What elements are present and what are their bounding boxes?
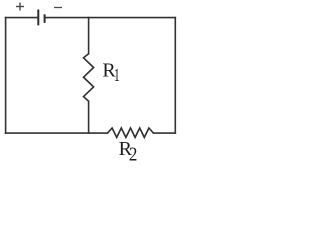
wire: top-left segment (battery positive lead) [6, 17, 38, 19]
resistor R2 (horizontal zigzag) [108, 128, 154, 137]
wire: bottom-left segment [6, 132, 108, 134]
wire: left edge [5, 18, 7, 134]
svg-text:1: 1 [114, 66, 120, 86]
label: battery + terminal [16, 3, 24, 11]
battery (cell) [38, 10, 44, 26]
wire: top-right segment (battery negative lead to right edge) [45, 17, 176, 19]
wire: bottom-right segment [154, 132, 176, 134]
wire: right edge [174, 18, 176, 134]
label: R2 value text [119, 138, 138, 166]
resistor R1 (vertical zigzag) [84, 54, 94, 101]
svg-text:2: 2 [129, 143, 138, 164]
wire: middle branch upper segment (top node to R1) [88, 18, 90, 54]
label: battery - terminal [54, 7, 62, 9]
label: R1 value text [102, 60, 119, 86]
wire: middle branch lower segment (R1 to bottom node) [88, 101, 90, 133]
